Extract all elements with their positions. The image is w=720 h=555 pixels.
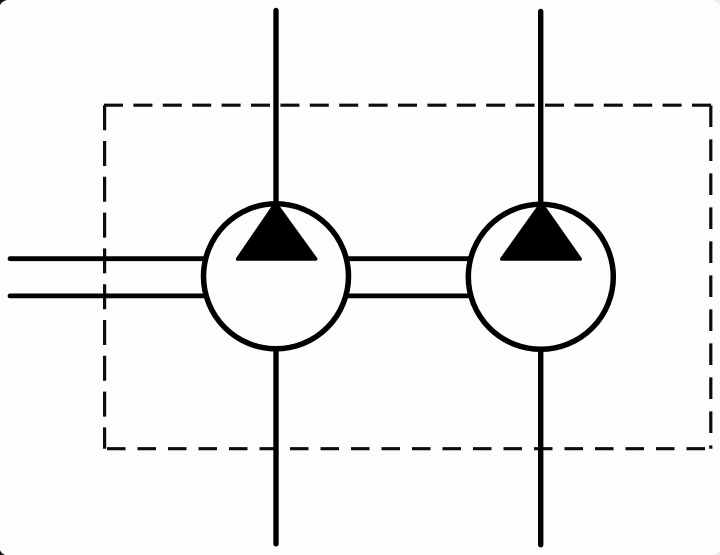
enclosure dashed box: bottom edge xyxy=(107,447,709,450)
pump P1 circle (left) xyxy=(204,204,349,349)
corner artifact bottom-left xyxy=(0,550,6,555)
enclosure dashed box: top edge xyxy=(104,104,711,107)
pump P2 circle (right) xyxy=(468,204,613,349)
wire: lower horizontal double line xyxy=(10,293,600,298)
corner artifact bottom-right xyxy=(713,550,720,555)
corner artifact top-right xyxy=(713,0,720,5)
enclosure dashed box: left edge xyxy=(103,105,106,449)
wire: upper horizontal double line xyxy=(10,256,600,261)
wire: left pump vertical line xyxy=(273,11,278,544)
pump P2 flow triangle xyxy=(502,204,580,260)
corner artifact top-left xyxy=(0,0,7,5)
enclosure dashed box: right edge xyxy=(709,105,712,448)
wire: right pump vertical line xyxy=(538,11,543,544)
pump P1 flow triangle xyxy=(238,204,316,260)
